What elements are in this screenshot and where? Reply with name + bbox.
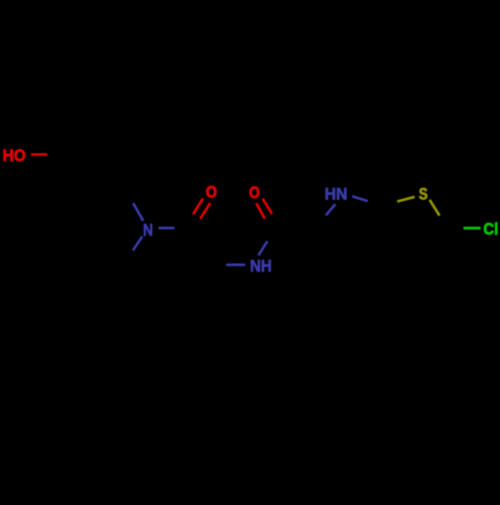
wire C=O double bond line 2 (second carbonyl) bbox=[256, 203, 265, 219]
wire O-C half-bond from HO bbox=[31, 153, 47, 156]
wire N-C(=O) half-bond right of N bbox=[159, 227, 175, 230]
wire C-S half-bond left of S bbox=[397, 197, 414, 202]
wire C=O double bond line 2 (first carbonyl) bbox=[200, 203, 210, 219]
wire C-Cl half-bond left of Cl bbox=[464, 227, 481, 230]
wire N-CH3 half-bond lower-left of N bbox=[133, 236, 142, 250]
wire HN-C half-bond right of HN bbox=[352, 196, 368, 201]
svg-text:O: O bbox=[206, 184, 217, 202]
wire HN-C half-bond lower-left of HN bbox=[326, 204, 336, 215]
svg-text:HO: HO bbox=[3, 147, 26, 165]
wire C-NH half-bond left of NH bbox=[226, 263, 245, 266]
wire C=O double bond line 1 (first carbonyl) bbox=[193, 198, 203, 214]
svg-text:NH: NH bbox=[250, 258, 272, 276]
wire NH-C(=O) half-bond upper-right of NH bbox=[258, 241, 267, 255]
wire C=O double bond line 1 (second carbonyl) bbox=[263, 199, 273, 214]
svg-text:O: O bbox=[249, 184, 260, 202]
svg-text:Cl: Cl bbox=[483, 221, 498, 239]
wire S-C half-bond lower-right of S bbox=[430, 200, 440, 216]
wire C-N half-bond upper-left of N bbox=[133, 203, 143, 221]
svg-text:S: S bbox=[419, 186, 428, 204]
svg-text:N: N bbox=[143, 221, 153, 239]
svg-text:HN: HN bbox=[325, 185, 348, 203]
